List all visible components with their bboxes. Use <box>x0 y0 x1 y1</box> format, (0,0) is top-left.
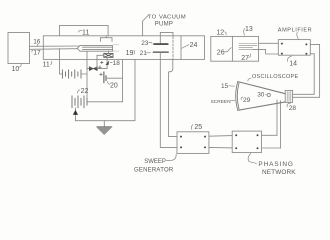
dash of label 18 <box>110 61 112 63</box>
label 23 <box>141 40 149 47</box>
svg-text:26: 26 <box>217 50 225 57</box>
leader for top label 11 <box>79 31 82 32</box>
label 17 <box>33 50 41 57</box>
sweep generator box 25 <box>177 132 209 154</box>
label 15 <box>221 83 229 90</box>
beam spot circle 30 <box>267 93 270 96</box>
leader for label 14 <box>287 56 291 62</box>
CRT deflection lead right <box>280 101 282 148</box>
svg-text:16: 16 <box>33 39 41 46</box>
tube envelope 11 (main body) <box>43 36 204 60</box>
cathode electrode (pointed filament structure) <box>77 46 112 52</box>
svg-text:25: 25 <box>194 124 202 131</box>
svg-text:AMPLIFIER: AMPLIFIER <box>278 27 312 33</box>
svg-text:15: 15 <box>221 83 229 90</box>
filament battery <box>62 70 81 78</box>
vacuum stem (to pump) <box>160 32 173 35</box>
label 27 <box>241 55 249 62</box>
svg-text:22: 22 <box>81 88 89 95</box>
pickup plate lower (in box 13) <box>239 48 253 50</box>
capacitor 20 (vertical plates) <box>104 72 106 83</box>
plus sign near meter <box>101 61 104 64</box>
cathode return lead (vertical x=87) <box>86 51 88 98</box>
svg-text:11: 11 <box>82 30 89 37</box>
svg-text:13: 13 <box>245 26 253 33</box>
dash for label Screen <box>230 99 235 101</box>
label Amplifier <box>278 27 312 33</box>
svg-text:21: 21 <box>140 50 148 57</box>
sweep generator terminal dots <box>180 136 206 149</box>
label 16 <box>33 39 41 46</box>
arrowhead of label 18 <box>106 61 109 65</box>
label 20 <box>110 83 118 90</box>
wire filament battery to cathode lead <box>81 73 87 75</box>
svg-text:PUMP: PUMP <box>155 21 174 27</box>
phasing network terminal dots <box>235 134 258 149</box>
svg-text:PHASING: PHASING <box>258 161 293 168</box>
battery 22 right wire <box>87 101 123 103</box>
svg-text:27: 27 <box>241 55 249 62</box>
leader for label 29 <box>241 97 242 100</box>
label 26 <box>217 50 225 57</box>
leader for Sweep Generator <box>166 154 176 161</box>
meter left lead <box>97 55 104 68</box>
leader for label 21 <box>146 51 150 54</box>
dash for label 30 <box>265 94 267 96</box>
wire sweep generator to phasing network upper <box>209 135 232 138</box>
phasing network box <box>232 131 261 153</box>
amplifier output wire upper <box>293 44 320 97</box>
label 19 <box>126 50 134 57</box>
pickup plate upper (in box 13) <box>239 44 257 46</box>
svg-text:GENERATOR: GENERATOR <box>134 168 174 174</box>
svg-text:28: 28 <box>289 105 297 112</box>
leader for label 12 <box>225 32 226 35</box>
svg-text:24: 24 <box>190 42 198 49</box>
svg-text:17: 17 <box>33 50 41 57</box>
svg-text:23: 23 <box>141 40 149 47</box>
filament supply lead (down from wire 17) <box>60 49 63 75</box>
phasing network output wire lower <box>262 147 281 149</box>
wire sweep generator to phasing network lower <box>209 146 232 149</box>
leader for label 13 <box>243 28 246 35</box>
label 10 <box>12 66 20 73</box>
label Sweep <box>144 159 166 165</box>
amplifier terminal dots <box>281 43 308 55</box>
box 10 (source unit) <box>8 33 30 64</box>
wire B: tube bottom to sweep generator <box>169 59 177 136</box>
svg-text:30: 30 <box>257 91 265 98</box>
label Network <box>262 169 296 176</box>
leader for label 26 <box>225 48 232 52</box>
svg-text:19: 19 <box>126 50 134 57</box>
label 14 <box>289 61 297 68</box>
svg-text:TO VACUUM: TO VACUUM <box>148 15 186 21</box>
leader for bottom label 11 <box>51 61 52 64</box>
wire 16 (upper lead from box 10) <box>30 45 80 47</box>
label Screen <box>211 99 232 105</box>
amplifier output wire lower <box>293 54 315 95</box>
label Generator <box>134 168 174 174</box>
label 24 <box>190 42 198 49</box>
svg-text:10: 10 <box>12 66 20 73</box>
leader for label 16 <box>36 44 39 46</box>
amplifier box 14 <box>278 40 310 56</box>
wire A: deflection plates to sweep generator <box>160 53 177 148</box>
meter box with X <box>104 54 113 58</box>
label 11 (bottom left) <box>43 62 50 69</box>
leader for label 23 <box>149 42 152 43</box>
stub from slit box to envelope top <box>105 36 107 38</box>
deflection plate 21 (lower) <box>153 51 168 53</box>
oscilloscope screen (double arc) <box>236 82 239 111</box>
battery 22 <box>72 96 87 108</box>
svg-text:SWEEP: SWEEP <box>144 159 166 165</box>
leader for label 24 <box>182 45 189 49</box>
capacitor 20 right wire <box>106 77 123 79</box>
svg-text:11: 11 <box>43 62 50 69</box>
label 13 <box>245 26 253 33</box>
deflection plate 23 (upper, dark) <box>154 43 168 45</box>
CRT base <box>285 90 292 102</box>
dash for label 15 <box>229 85 235 87</box>
plus sign above capacitor 20 <box>100 73 103 76</box>
svg-text:12: 12 <box>216 29 224 36</box>
label 18 <box>113 60 121 67</box>
wire pickup lower to amplifier <box>253 49 279 54</box>
label To Vacuum Pump <box>148 15 186 28</box>
anode return vertical (x=122.5) <box>122 59 124 101</box>
label 21 <box>140 50 148 57</box>
ground symbol <box>97 127 112 135</box>
leader for Phasing Network <box>248 153 256 163</box>
crystal detector 18 (facing triangles) <box>89 67 97 71</box>
svg-text:29: 29 <box>243 97 251 104</box>
label 11 (top, inside raised section) <box>82 30 89 37</box>
wire pickup upper to amplifier <box>259 42 279 44</box>
ground stub <box>103 121 105 127</box>
leader for label 10 <box>20 63 22 67</box>
arrowhead on battery lead <box>73 110 78 114</box>
oscilloscope CRT funnel <box>238 82 285 111</box>
tube internal divider (element 24) <box>180 36 182 60</box>
ground return wire <box>76 59 136 120</box>
electrode axis dashes <box>113 45 119 51</box>
label Phasing <box>258 161 293 168</box>
svg-text:NETWORK: NETWORK <box>262 169 296 176</box>
svg-text:OSCILLOSCOPE: OSCILLOSCOPE <box>252 74 299 80</box>
label 12 <box>216 29 224 36</box>
label 29 <box>243 97 251 104</box>
leader for label 20 <box>108 81 110 84</box>
label 22 <box>81 88 89 95</box>
wire 17 (lower lead from box 10) <box>30 48 78 51</box>
label 25 <box>194 124 202 131</box>
leader for Amplifier <box>297 32 299 39</box>
leader for label 22 <box>77 90 79 93</box>
divider 26 inside box 12 <box>231 36 233 61</box>
box 12 (analyser chamber) <box>211 36 259 61</box>
wire of crystal detector <box>87 68 107 70</box>
label Oscilloscope <box>252 74 299 80</box>
slit plate box above electrode <box>100 38 112 42</box>
svg-text:14: 14 <box>289 61 297 68</box>
leader for label 17 <box>32 50 33 52</box>
leader for label 28 <box>287 103 291 107</box>
leader for label 27 <box>249 54 251 58</box>
plus sign above crystal <box>99 66 102 69</box>
tube raised section <box>59 26 108 36</box>
brace after label 19 <box>133 50 136 54</box>
stem centre wire upper <box>159 36 161 44</box>
label 28 <box>289 105 297 112</box>
CRT deflection lead left <box>276 100 278 135</box>
stem right wall (dashed) <box>172 37 174 60</box>
svg-text:18: 18 <box>113 60 121 67</box>
label 30 <box>257 91 265 98</box>
svg-text:SCREEN: SCREEN <box>211 99 232 105</box>
meter top lead <box>108 51 110 53</box>
leader for To Vacuum Pump <box>143 15 149 36</box>
leader for label 25 <box>191 125 192 130</box>
leader for Oscilloscope <box>248 78 251 81</box>
battery 22 negative lead with arrowhead <box>75 108 77 121</box>
phasing network output wire upper <box>262 134 278 136</box>
svg-text:20: 20 <box>110 83 118 90</box>
meter bottom lead <box>106 57 108 68</box>
